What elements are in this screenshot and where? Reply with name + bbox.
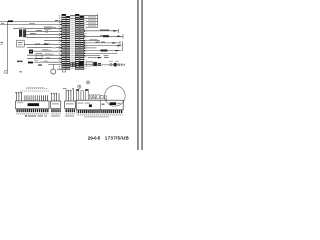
svg-text:1737/5/UB: 1737/5/UB xyxy=(105,135,130,140)
svg-text:29-0-5: 29-0-5 xyxy=(88,135,101,140)
